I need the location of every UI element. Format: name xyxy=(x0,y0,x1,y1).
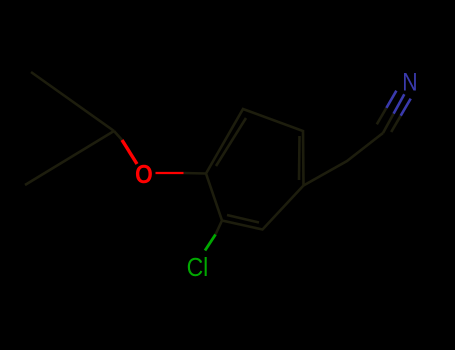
svg-text:N: N xyxy=(402,68,417,96)
svg-text:Cl: Cl xyxy=(187,254,209,282)
svg-text:O: O xyxy=(135,161,153,189)
